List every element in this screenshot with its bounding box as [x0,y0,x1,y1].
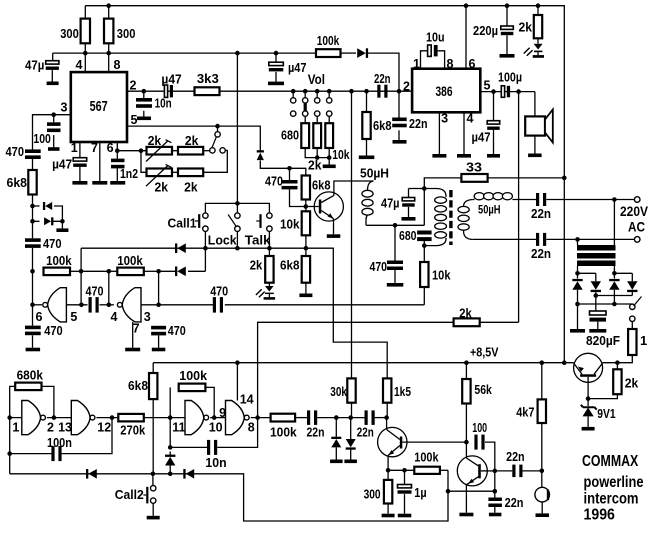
switch Call1 top contact [203,213,208,218]
Q3 base bar [478,464,481,478]
wire [172,171,178,173]
wire [616,363,618,370]
switch Call1 bottom contact [203,226,208,231]
capacitor 22n pin2 [392,118,407,122]
junction 2k [615,360,620,365]
speaker [525,116,545,135]
svg-text:100: 100 [33,131,51,146]
svg-text:1: 1 [640,333,647,348]
wire [317,417,364,419]
wire [506,35,508,54]
svg-text:2k: 2k [308,158,322,173]
svg-text:5: 5 [131,113,138,127]
svg-text:220µ: 220µ [473,23,498,38]
wire gate2 output [141,304,213,306]
wire [32,195,34,239]
wire pin6 [116,142,118,159]
switch contact top [215,132,220,137]
svg-text:1: 1 [12,421,19,435]
wire [534,136,536,154]
wire [577,304,579,329]
wire Q4 base [587,377,589,399]
wire [506,6,508,26]
junction 6k8 [364,89,369,94]
junction rail [562,176,567,181]
svg-text:AC: AC [628,220,645,235]
svg-text:COMMAX: COMMAX [582,453,639,470]
resistor 300 [384,480,392,504]
wire [465,404,467,443]
wire [577,273,579,278]
wire [33,220,40,222]
svg-text:3: 3 [61,101,68,115]
svg-text:10k: 10k [332,147,350,162]
wire [152,399,154,474]
wire [587,399,589,406]
junction transformer bottom [422,243,427,248]
ground 470 [26,348,40,352]
junction diode [168,472,173,477]
capacitor 10n osc2 [207,440,210,455]
svg-text:22n: 22n [374,71,391,86]
switch Talk bottom contact [267,226,272,231]
svg-text:6: 6 [107,141,114,155]
svg-text:680: 680 [399,228,417,243]
wire +8.5V rail [153,362,574,364]
wire [577,266,579,273]
resistor 100k osc1 a [44,268,71,276]
diode pin5 [257,153,264,161]
wire 567 supply row [53,52,316,54]
capacitor u47 series [164,85,167,97]
wire [631,321,633,329]
wire [335,447,337,459]
wire [205,387,214,417]
svg-text:470: 470 [44,323,63,338]
wire bus [236,53,238,203]
svg-text:2: 2 [47,421,54,435]
wire Q2 emitter [387,455,389,470]
wire [305,200,307,207]
svg-text:567: 567 [90,99,108,115]
resistor 300 right [104,19,113,44]
transformer core [449,190,452,245]
svg-text:Vol: Vol [308,72,325,87]
ground 10n [137,117,151,121]
wire [47,417,71,419]
junction [79,269,84,274]
wire [188,270,205,272]
resistor 6k8 lower [302,256,310,283]
wire [494,507,496,513]
svg-text:4: 4 [111,310,118,324]
resistor 33 [461,174,487,182]
svg-text:22n: 22n [357,425,374,440]
ground 300 [382,514,395,518]
svg-text:22n: 22n [307,425,325,440]
wire [109,270,118,272]
ground 820uF [589,329,606,333]
svg-text:30k: 30k [330,384,347,399]
switch Lock top contact [235,213,240,218]
junction [212,415,217,420]
wire gate8 out [251,417,271,419]
svg-text:µ47: µ47 [288,60,307,75]
svg-text:270k: 270k [120,423,146,438]
wire [54,206,62,221]
wire pin7 [99,142,101,181]
svg-text:680k: 680k [17,368,44,383]
wire [597,322,599,329]
wire [116,168,118,181]
wire [375,417,387,419]
wire [394,225,396,260]
svg-text:22n: 22n [505,495,524,510]
wire pin3 to left rail [33,115,71,150]
resistor 1k5 [383,378,391,402]
resistor 100k emitter [414,467,440,474]
svg-text:3: 3 [144,310,151,324]
junction base [304,204,309,209]
wire Q2 base [402,441,466,443]
capacitor 470 series left rail [25,149,41,153]
wire 2k to zener [588,394,617,398]
junction gnd [575,302,580,307]
svg-text:50µH: 50µH [478,203,501,217]
wire 47u [409,188,425,190]
wire [351,403,353,418]
svg-text:2k: 2k [250,258,263,273]
ground zener [582,427,595,431]
wire speaker feed down [518,92,520,323]
wire [387,470,389,480]
junction Call1 [203,246,208,251]
capacitor 22n out b [365,410,368,425]
diode low rail a [88,469,97,479]
wire [465,363,467,379]
wire [210,417,225,419]
wire [70,270,81,272]
ground Call2 [147,516,160,520]
resistor 30k [347,378,355,402]
junction transformer top [422,186,427,191]
svg-text:intercom: intercom [584,491,639,508]
wire low rail [10,470,448,521]
wire [305,207,307,212]
wire [595,273,597,281]
svg-text:2k: 2k [184,180,198,195]
microphone [535,487,550,502]
junction Q2 collector [384,415,389,420]
svg-text:µ47: µ47 [472,129,491,144]
resistor 10k vol [325,123,333,148]
NAND gate pins 13-12 [71,401,90,435]
svg-text:47µ: 47µ [25,58,44,73]
svg-text:6k8: 6k8 [280,258,300,273]
junction [156,303,161,308]
junction pin5 / switch [215,124,220,129]
junction pin2 [397,89,402,94]
capacitor 47u [402,198,415,201]
diode 100k row [177,267,186,277]
svg-text:470: 470 [210,283,228,298]
wire [51,70,53,81]
svg-text:100k: 100k [46,253,72,268]
wire pin7 gnd [132,322,134,348]
resistor 100k osc2 [179,384,206,392]
wire [541,471,543,488]
wire [408,207,410,217]
wire vol bottoms [305,148,329,158]
wire [32,159,34,170]
wire [386,403,388,418]
diode to 386 input [357,48,366,58]
wire [398,130,400,140]
ground 6k8 [359,156,375,160]
wire [100,304,114,306]
junction bridge [612,271,617,276]
resistor 10k transformer [420,262,428,287]
svg-text:6: 6 [469,57,476,71]
ground vol [323,165,336,169]
junction right rail [562,360,567,365]
junction [612,302,617,307]
wire [108,6,110,19]
svg-text:8: 8 [114,58,121,72]
wire pin1 [421,51,428,69]
junction pin14 [235,360,240,365]
junction bridge [575,271,580,276]
wire [204,231,206,248]
wire [305,283,307,294]
transistor Q2 [378,427,407,456]
wire pin3 [438,112,440,154]
ground clamp a [330,460,343,464]
junction 56k [464,360,469,365]
svg-text:4k7: 4k7 [516,405,534,420]
svg-text:11: 11 [172,421,185,435]
junction [107,269,112,274]
wire [613,273,615,278]
switch Talk actuator [259,214,261,228]
wire [158,271,160,305]
wire [512,199,536,201]
capacitor 22n out a [307,410,310,425]
junction u47 [491,89,496,94]
junction 100n [7,451,12,456]
wire [448,490,495,492]
capacitor 470 base [282,180,298,184]
svg-text:8: 8 [447,57,454,71]
wire [440,469,448,471]
svg-text:1996: 1996 [584,507,616,524]
wire [32,335,34,347]
wire [613,200,615,246]
ground 470 [387,283,404,287]
capacitor 22n line bottom [536,233,539,246]
wire bridge top b [614,272,632,274]
junction [446,489,451,494]
junction top rail / C 220u [505,3,510,8]
switch Call2 top contact [151,486,156,491]
junction [79,303,84,308]
wire 100n right [62,418,112,454]
wire [493,130,495,154]
junction 100k [30,269,35,274]
junction 100 cap [51,112,56,117]
wire speaker [534,92,536,117]
svg-text:Call2: Call2 [115,487,144,502]
capacitor 22n line top [536,193,539,206]
wire actuator tick [195,220,198,222]
wire [152,474,154,486]
wire [404,470,406,484]
resistor 2k LED2 [265,256,273,283]
NAND gate pins 9-8 [226,401,245,435]
capacitor 220u [501,26,514,29]
resistor 2k vol [313,123,321,148]
junction clipper top [30,204,35,209]
wire [341,52,357,54]
wire [388,469,414,471]
wire transformer left leg [423,189,425,226]
wire [394,270,396,283]
wire pin6 [465,6,467,69]
svg-text:100n: 100n [47,435,72,450]
capacitor 100 [474,435,477,450]
svg-text:300: 300 [364,486,381,501]
wire osc1 to transformer node [225,304,424,306]
wire [96,417,118,419]
wire feed to gate8 [258,322,454,417]
capacitor u47 decouple [269,62,284,65]
wire [613,290,615,304]
wire to base [290,189,319,206]
wire [144,270,159,272]
ground mic [536,513,550,517]
terminal 220V top [634,197,640,203]
svg-text:Lock: Lock [208,233,238,248]
LED indicator top [534,44,543,50]
wire [268,283,270,286]
wire [236,231,238,248]
junction supply row / u47 cap [274,51,279,56]
junction pin6 [115,148,120,153]
svg-text:7: 7 [91,141,98,155]
wire actuator tick [143,494,146,496]
wire pin4 [84,53,86,72]
capacitor u47 pin5 [487,121,500,124]
wire [537,6,539,15]
wire audio bus to 30k [351,91,353,378]
wire [144,417,185,419]
resistor 680k [15,383,41,391]
wire pin4 [463,112,465,154]
ground bridge [570,329,585,333]
trimmer 2k row1 [147,147,173,155]
wire [350,418,352,440]
svg-text:1n2: 1n2 [120,166,138,181]
junction zener [586,396,591,401]
svg-text:220V: 220V [620,204,648,219]
wire to terminal [546,199,634,201]
wire to 33 [424,178,461,189]
capacitor 22n series [377,85,380,98]
trimmer 2k row2 [147,169,173,177]
svg-text:470: 470 [265,173,283,188]
wire [152,503,154,516]
svg-text:powerline: powerline [584,474,644,491]
diode bridge D2 [591,281,601,290]
svg-text:4: 4 [76,58,83,72]
wire [587,416,589,427]
capacitor 680 [417,231,432,235]
junction [156,269,161,274]
svg-text:13: 13 [58,421,72,435]
wire [480,321,519,323]
wire [143,91,145,98]
svg-text:470: 470 [370,259,388,274]
switch Call2 bottom contact [151,498,156,503]
switch Call1 actuator [198,214,200,228]
wire [84,6,86,19]
wire bridge minus [578,303,633,305]
wire [169,452,171,456]
svg-text:1: 1 [71,141,78,155]
svg-text:2k: 2k [519,20,533,35]
svg-text:820µF: 820µF [586,333,620,348]
svg-text:33: 33 [466,160,482,175]
capacitor 100 [47,122,61,126]
transformer T1 primary [424,189,446,198]
wire [295,417,307,419]
ground 22n [489,513,502,517]
wire [53,115,55,123]
svg-text:2k: 2k [155,180,169,195]
junction 470 [393,223,398,228]
capacitor 100u [501,86,504,98]
svg-text:5: 5 [70,310,77,324]
Vol wiper bar [304,103,307,111]
resistor 100k top [316,49,341,57]
transformer T2 bar2 [577,253,616,259]
wire pin5 [480,91,535,93]
svg-text:14: 14 [240,393,254,407]
resistor 4k7 [538,399,546,423]
svg-text:6k8: 6k8 [373,118,392,133]
LED indicator [265,286,274,292]
svg-text:100k: 100k [117,253,143,268]
svg-text:22n: 22n [506,449,525,464]
transistor Q1 [314,192,343,221]
wire pin6 row1 [117,150,146,152]
inverter gate pins 6-5 [48,288,67,322]
junction [493,489,498,494]
capacitor 470 to ground at gate output [151,326,166,330]
ground 47u [47,82,59,86]
svg-text:3: 3 [441,112,448,126]
wire [236,203,238,213]
svg-text:100: 100 [472,420,487,435]
svg-text:2: 2 [403,80,410,94]
svg-text:10k: 10k [432,268,451,283]
junction [327,155,332,160]
wire [79,167,81,181]
wire [108,43,110,53]
resistor 300 left [81,19,90,44]
capacitor 470 series left rail 2 [25,238,41,242]
wire Q1 emitter [333,219,335,235]
